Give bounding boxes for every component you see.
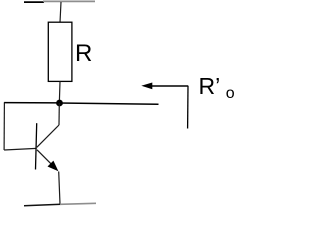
node junction dot [56,100,63,107]
label R'o (output resistance) [199,75,235,102]
wire: node horizontal [4,103,159,105]
transistor Q1 [36,103,60,171]
top supply rail wire [24,0,95,3]
label R (resistor value) [75,42,92,66]
resistor R [48,22,72,81]
wire: left vertical feedback [3,102,5,150]
arrow: R'o looking left into node [141,83,188,129]
bottom rail wire [24,203,96,205]
wire: resistor to node [58,81,61,101]
wire: rail to resistor top [60,2,61,23]
wire: emitter to bottom rail [59,172,60,205]
wire: base [4,148,37,150]
